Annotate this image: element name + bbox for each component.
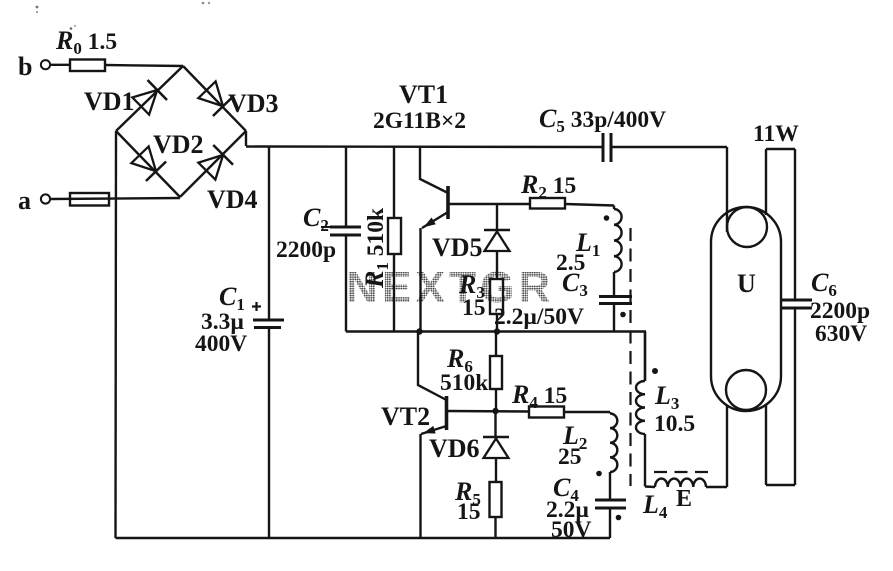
wire C6 loop bottom: [766, 484, 795, 486]
label R1 510k rotated: [360, 207, 392, 289]
lamp bottom filament: [726, 370, 766, 410]
wire VT1 collector: [420, 147, 448, 193]
wire R1 top: [393, 147, 395, 218]
polarity dot L2: [596, 471, 602, 477]
transistor VT2 emitter: [421, 426, 447, 434]
svg-text:R0 1.5: R0 1.5: [55, 26, 117, 58]
wire VD5 to R3: [496, 251, 498, 279]
wire C6 loop top: [766, 148, 795, 150]
wire C1 branch upper: [268, 147, 270, 320]
capacitor C5: [602, 133, 605, 162]
svg-text:50V: 50V: [551, 517, 592, 543]
wire rail corner to lamp: [726, 147, 728, 232]
wire C6 loop right upper: [794, 149, 796, 300]
inductor L2 winding: [609, 412, 611, 414]
svg-text:a: a: [18, 186, 31, 215]
junction dot R3 node: [494, 328, 500, 334]
wire VT1 base line: [448, 203, 530, 205]
capacitor C3: [599, 295, 632, 298]
svg-text:R1 510k: R1 510k: [360, 207, 392, 289]
wire R5 bottom: [494, 517, 496, 538]
fuse F1 on input a: [70, 193, 109, 206]
svg-text:E: E: [676, 486, 692, 512]
svg-text:VD3: VD3: [228, 89, 279, 118]
svg-text:25: 25: [558, 444, 582, 470]
diode VD5: [484, 229, 510, 232]
node line VT1 emitter bus: [346, 330, 646, 332]
svg-text:10.5: 10.5: [654, 411, 695, 437]
lamp top filament: [727, 207, 767, 247]
resistor R6: [490, 356, 502, 389]
svg-text:VD5: VD5: [432, 233, 483, 262]
wire C2 branch upper: [345, 147, 347, 227]
svg-text:15: 15: [457, 499, 481, 525]
polarity dot near C3: [620, 312, 626, 318]
bridge edge top-right: [183, 66, 246, 131]
svg-text:U: U: [737, 269, 756, 298]
polarity dot near C4: [616, 515, 622, 521]
resistor R1: [388, 218, 401, 254]
wire node line corner to L3: [644, 332, 646, 382]
wire lamp top right pin: [765, 149, 767, 215]
wire VT2 base line: [447, 410, 530, 413]
wire R6 top: [495, 332, 497, 357]
diode VD4: [197, 145, 233, 181]
core dashed line above L4: [654, 471, 712, 473]
svg-text:R2 15: R2 15: [520, 170, 576, 202]
wire R0 to bridge top corner: [105, 65, 183, 66]
wire L4 to lamp left pin: [706, 486, 727, 488]
transistor VT1 emitter: [422, 212, 448, 228]
diode VD1: [131, 80, 167, 116]
wire C2 branch lower to node line: [345, 235, 347, 332]
wire lamp bottom left pin: [726, 405, 728, 487]
capacitor C2 2200p: [330, 226, 361, 229]
svg-text:2.2µ/50V: 2.2µ/50V: [494, 304, 584, 330]
wire R3 bottom: [496, 314, 498, 332]
transistor VT1 base bar: [446, 186, 450, 219]
junction dot VT1 emitter node: [416, 328, 422, 334]
svg-text:VD6: VD6: [429, 434, 480, 463]
wire C3 bottom to node line: [613, 304, 615, 332]
svg-text:VD4: VD4: [207, 185, 258, 214]
wire a to bridge bottom corner: [50, 198, 180, 199]
positive top rail left of C5: [246, 145, 603, 148]
wire L3 to L4: [645, 485, 655, 488]
resistor R2: [530, 198, 565, 209]
svg-text:11W: 11W: [753, 121, 799, 147]
wire R2 to L1: [565, 204, 614, 206]
wire lamp bottom right pin: [765, 405, 767, 485]
svg-text:400V: 400V: [195, 331, 247, 357]
svg-text:b: b: [18, 52, 32, 81]
capacitor C1 3.3u/400V: [253, 319, 284, 322]
wire R6 bottom: [495, 389, 497, 411]
transistor VT2 base bar: [445, 396, 449, 430]
bridge edge left-bottom: [116, 131, 180, 197]
wire VT2 collector: [418, 332, 447, 401]
capacitor C4: [595, 499, 626, 502]
junction dot VT2 base node: [492, 408, 498, 414]
capacitor C6: [781, 299, 812, 302]
polarity dot L1: [604, 215, 610, 221]
svg-text:R4 15: R4 15: [511, 380, 567, 412]
wire R1 bottom: [393, 254, 395, 332]
wire R4 to L2: [564, 411, 610, 413]
wire bridge right corner step: [245, 131, 247, 146]
negative rail from bridge left corner down: [114, 131, 117, 538]
transformer core dashed line: [629, 228, 631, 486]
bridge edge left-top: [116, 66, 183, 131]
input terminal b: [41, 60, 50, 69]
lamp tube outline U: [711, 207, 781, 411]
bridge edge bottom-right: [180, 131, 246, 197]
wire C4 bottom to ground rail: [609, 508, 611, 538]
diode VD2: [130, 145, 166, 181]
svg-text:VD1: VD1: [84, 87, 135, 116]
positive top rail right of C5: [611, 146, 727, 148]
resistor R5: [490, 482, 502, 517]
wire C6 loop right lower: [794, 308, 796, 485]
svg-text:2G11B×2: 2G11B×2: [373, 108, 466, 134]
wire b to R0: [50, 64, 70, 66]
diode VD6: [483, 436, 509, 439]
input terminal a: [41, 194, 50, 203]
resistor R4: [529, 407, 564, 418]
plus sign of C1: [255, 302, 257, 311]
wire VD5 anode from base line: [496, 204, 498, 230]
svg-text:VT1: VT1: [399, 80, 448, 109]
svg-text:15: 15: [462, 295, 486, 321]
polarity dot L3: [652, 368, 658, 374]
resistor R0: [70, 60, 105, 72]
inductor L4 winding: [655, 479, 706, 487]
wire VD6 from base node: [494, 411, 496, 437]
bottom ground rail: [116, 537, 611, 539]
svg-text:510k: 510k: [440, 370, 489, 396]
resistor R3: [490, 279, 503, 314]
wire C1 branch lower: [268, 328, 270, 539]
inductor L3 winding: [644, 332, 646, 382]
wire VD6 to R5: [495, 458, 497, 482]
scan specks: [36, 6, 39, 9]
svg-text:630V: 630V: [815, 321, 867, 347]
svg-text:VD2: VD2: [153, 130, 204, 159]
diode VD3: [197, 80, 233, 116]
svg-text:2200p: 2200p: [276, 237, 336, 263]
svg-text:VT2: VT2: [381, 402, 430, 431]
inductor L1 winding: [613, 206, 615, 210]
